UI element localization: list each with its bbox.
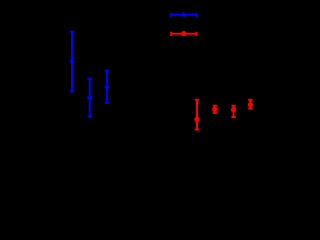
red error bar 3 (x=233.6) with circle marker [231,106,236,117]
red error bar 2 (x=215) with circle marker [212,106,217,113]
blue error bar 2 (x=89.7) with diamond marker [87,79,93,117]
legend red sample: horizontal error bar with circle marker [171,31,196,36]
blue error bar 1 (x=72) with diamond marker [69,32,75,92]
blue error bar 3 (x=106.9) with diamond marker [104,71,110,103]
plot background [0,0,276,198]
red error bar 1 (x=197) with circle marker [194,100,199,130]
legend blue sample: horizontal error bar with diamond marker [171,12,196,18]
red error bar 4 (x=250.4) with circle marker [248,100,253,109]
